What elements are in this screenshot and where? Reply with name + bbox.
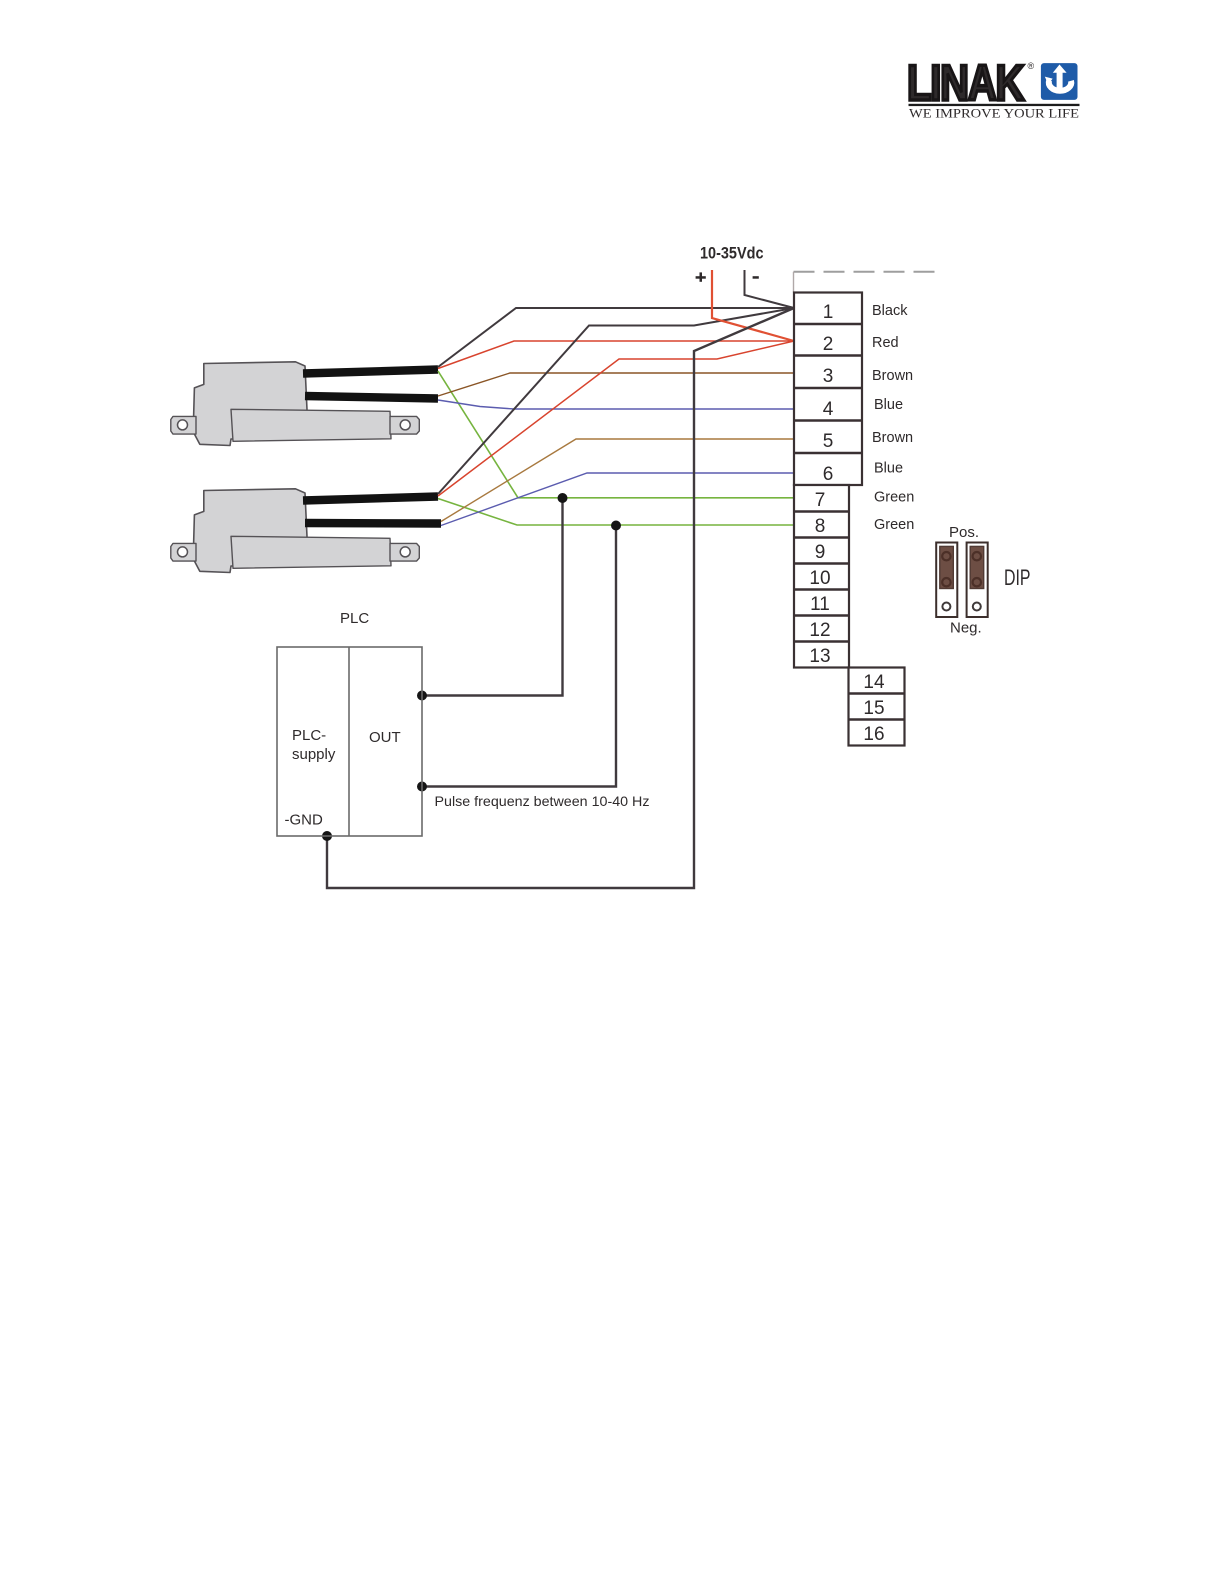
PLC box (277, 647, 422, 836)
svg-text:1: 1 (823, 302, 834, 323)
wire green A2 to terminal 8 (438, 499, 794, 526)
wire red A2 to terminal 2 (438, 341, 794, 496)
LINAK logo wordmark (907, 55, 1035, 111)
svg-text:6: 6 (823, 464, 834, 485)
svg-text:Pulse frequenz between 10-40 H: Pulse frequenz between 10-40 Hz (435, 793, 650, 809)
wire blue A1 to terminal 4 (438, 400, 794, 409)
svg-text:12: 12 (809, 620, 830, 641)
wire supply plus (712, 270, 794, 341)
logo rule (909, 104, 1080, 106)
svg-text:LINAK: LINAK (907, 55, 1025, 111)
svg-text:9: 9 (815, 542, 826, 563)
wire red A1 to terminal 2 (438, 341, 794, 369)
thin leader above terminal 1 (793, 272, 795, 293)
right eyelet tab (390, 416, 419, 434)
wire supply minus (745, 270, 795, 308)
cable A2 bottom (305, 519, 441, 528)
svg-text:8: 8 (815, 516, 826, 537)
junction dot on green2 (611, 521, 621, 531)
svg-text:Blue: Blue (874, 397, 903, 413)
svg-text:®: ® (1028, 61, 1035, 71)
wire colour labels (872, 303, 914, 533)
wire black A2 to terminal 1 (438, 308, 794, 494)
junction dot PLC OUT upper (417, 691, 427, 701)
svg-text:15: 15 (863, 698, 884, 719)
DIP switch 2 (967, 543, 988, 618)
terminal block column 1-6 (794, 293, 862, 486)
actuator A2 (171, 489, 419, 573)
wire brown A2 to terminal 5 (441, 439, 794, 522)
svg-text:13: 13 (809, 646, 830, 667)
cable A1 bottom (305, 396, 438, 399)
terminal block column 14-16 (849, 668, 905, 746)
svg-text:16: 16 (863, 724, 884, 745)
dashed top line of terminal block (794, 271, 937, 273)
svg-text:14: 14 (863, 672, 885, 693)
terminal block column 7-13 (794, 485, 849, 668)
svg-text:Red: Red (872, 335, 899, 351)
label + (696, 276, 706, 279)
cable A1 top (303, 370, 438, 374)
svg-text:5: 5 (823, 431, 834, 452)
actuator A1 (171, 362, 419, 446)
svg-text:10: 10 (809, 568, 830, 589)
svg-text:-GND: -GND (285, 812, 323, 829)
wire black A1 to terminal 1 (438, 308, 794, 367)
wire green A1 to terminal 7 (438, 371, 794, 498)
junction dot on green1 (558, 493, 568, 503)
svg-text:DIP: DIP (1004, 565, 1031, 590)
wire PLC GND loop to terminal 1 (327, 308, 794, 888)
junction dot PLC OUT lower (417, 782, 427, 792)
cable A2 top (303, 497, 438, 501)
svg-text:PLC-: PLC- (292, 727, 326, 744)
svg-text:3: 3 (823, 366, 834, 387)
svg-text:Green: Green (874, 517, 914, 533)
svg-text:11: 11 (810, 594, 830, 615)
svg-text:Neg.: Neg. (950, 620, 982, 637)
svg-text:Black: Black (872, 303, 908, 319)
svg-text:Brown: Brown (872, 368, 913, 384)
wire brown A1 to terminal 3 (438, 373, 794, 396)
wire PLC OUT 2 (422, 525, 616, 787)
wire blue A2 to terminal 6 (441, 473, 794, 526)
terminal numbers 1-6 (823, 302, 834, 485)
terminal numbers 14-16 (863, 672, 885, 745)
svg-text:WE IMPROVE YOUR LIFE: WE IMPROVE YOUR LIFE (909, 107, 1079, 121)
svg-text:supply: supply (292, 746, 336, 763)
svg-text:Blue: Blue (874, 461, 903, 477)
label - (753, 276, 759, 279)
LINAK logo blue symbol (1041, 63, 1078, 100)
wire PLC OUT 1 (422, 498, 563, 696)
svg-text:Brown: Brown (872, 430, 913, 446)
DIP switch 1 (936, 543, 957, 618)
body (193, 362, 307, 446)
terminal numbers 7-13 (809, 490, 830, 667)
svg-text:7: 7 (815, 490, 826, 511)
svg-text:PLC: PLC (340, 610, 369, 627)
svg-text:10-35Vdc: 10-35Vdc (700, 244, 764, 263)
svg-text:Pos.: Pos. (949, 524, 979, 541)
left eyelet tab (171, 416, 196, 434)
PLC divider (348, 647, 350, 836)
junction dot PLC GND (322, 831, 332, 841)
svg-text:2: 2 (823, 334, 834, 355)
svg-text:OUT: OUT (369, 729, 401, 746)
svg-text:4: 4 (823, 399, 834, 420)
piston rod (231, 409, 391, 441)
svg-text:Green: Green (874, 490, 914, 506)
